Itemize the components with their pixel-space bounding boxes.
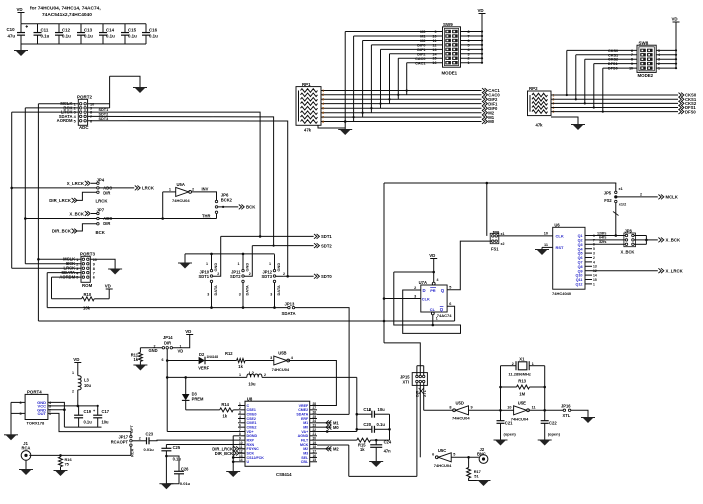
svg-text:U5E: U5E — [518, 400, 526, 405]
wire XTI bottom rail — [349, 475, 417, 477]
svg-text:MODE1: MODE1 — [442, 70, 458, 75]
svg-text:ROM: ROM — [82, 283, 93, 288]
svg-text:VD: VD — [73, 357, 79, 362]
wire JP14 pin1 to VD — [173, 335, 190, 348]
svg-text:FS2: FS2 — [604, 198, 612, 203]
svg-text:1: 1 — [239, 373, 241, 377]
svg-text:BCK: BCK — [246, 205, 256, 210]
svg-text:ADC: ADC — [79, 125, 89, 130]
svg-text:SDT3: SDT3 — [99, 117, 109, 121]
svg-text:11: 11 — [544, 243, 548, 247]
svg-text:Q7: Q7 — [578, 261, 583, 265]
wire JP15 top stubs — [416, 366, 418, 376]
svg-text:2: 2 — [264, 373, 266, 377]
wire PORT2 pin10/9 to ground — [88, 103, 110, 105]
svg-text:C19: C19 — [84, 409, 92, 414]
svg-text:U5C: U5C — [438, 448, 446, 453]
svg-text:11: 11 — [532, 406, 536, 410]
wire U8 U pin to ground — [233, 461, 238, 463]
svg-text:0.1u: 0.1u — [377, 422, 386, 427]
wire to JP16 — [545, 409, 564, 411]
svg-text:11.2896MHz: 11.2896MHz — [508, 371, 530, 376]
svg-text:Q10: Q10 — [576, 274, 583, 278]
svg-text:GND: GND — [276, 263, 281, 272]
svg-text:74HC4040: 74HC4040 — [552, 291, 572, 296]
ground C22 — [539, 440, 550, 446]
svg-text:C20: C20 — [363, 422, 371, 427]
svg-text:CKS1: CKS1 — [608, 53, 618, 57]
svg-text:C23: C23 — [146, 432, 154, 437]
svg-text:JP6: JP6 — [221, 192, 229, 197]
wires SW9 right pins to VD — [461, 31, 483, 33]
svg-text:D: D — [423, 288, 426, 293]
capacitor C21 open — [500, 418, 502, 421]
diode D3 PREM — [185, 377, 187, 394]
jumper JP11 SDT2 — [242, 254, 244, 270]
svg-text:5: 5 — [76, 276, 78, 280]
svg-text:PR: PR — [430, 288, 436, 293]
svg-text:JP5: JP5 — [604, 191, 612, 196]
svg-text:M0: M0 — [333, 425, 339, 430]
wire D2 row — [167, 360, 198, 362]
capacitor C20 0.1u — [357, 428, 372, 430]
wire C18/C20 right rail — [389, 414, 391, 440]
wire R12 to U5B — [245, 360, 274, 362]
svg-text:47u: 47u — [8, 34, 16, 39]
wire D3 to R14 — [186, 409, 220, 411]
wire VD PR CL loop to D — [394, 271, 434, 273]
svg-text:1: 1 — [206, 262, 208, 266]
svg-text:L2: L2 — [249, 371, 255, 376]
svg-text:10u: 10u — [84, 383, 92, 388]
jumper JP10 SDT1 — [211, 254, 213, 270]
svg-text:JP14: JP14 — [163, 335, 173, 340]
net label X_LRCK out — [658, 268, 663, 273]
resistor R17 51 — [468, 457, 470, 467]
svg-text:Q11: Q11 — [576, 278, 583, 282]
wire PORT3 BCK — [25, 263, 81, 265]
svg-text:1k: 1k — [238, 364, 243, 369]
capacitor C18 10u — [357, 413, 372, 415]
wire JP17 mid to C23 — [132, 440, 146, 442]
wire X_BCK out — [646, 239, 657, 241]
wire U8 VD+ feed — [167, 430, 238, 432]
svg-text:7: 7 — [93, 271, 95, 275]
svg-text:2: 2 — [640, 193, 642, 197]
wire LRCK long row — [12, 187, 97, 189]
svg-text:3: 3 — [593, 252, 595, 256]
svg-text:1k: 1k — [223, 414, 228, 419]
svg-text:R10: R10 — [84, 292, 92, 297]
svg-text:OUT: OUT — [38, 411, 47, 416]
inverter U5D 74HCU04 — [456, 406, 469, 415]
wire U5A input — [162, 192, 164, 219]
wire PORT3 pin10 to ground — [90, 259, 115, 269]
svg-text:74HCU04: 74HCU04 — [172, 198, 190, 203]
svg-text:JP13: JP13 — [285, 301, 295, 306]
wire R15 to C24 — [371, 439, 390, 441]
capacitor C23 0.01u — [146, 437, 148, 444]
capacitor C25 0.1u — [165, 444, 167, 448]
svg-text:Q5: Q5 — [578, 252, 583, 256]
svg-text:DFS1: DFS1 — [608, 62, 618, 66]
wire net SDT0 row — [284, 275, 314, 277]
svg-text:x1: x1 — [619, 187, 623, 191]
svg-text:8: 8 — [93, 267, 95, 271]
wire J1 to JP17 RCA — [29, 446, 131, 455]
svg-text:0.1u: 0.1u — [128, 34, 137, 39]
svg-text:6: 6 — [322, 111, 324, 115]
ground PORT4 — [6, 435, 17, 441]
svg-text:8: 8 — [449, 406, 451, 410]
wire U7A CL stub — [432, 315, 434, 325]
svg-text:(open): (open) — [504, 431, 517, 436]
svg-text:2: 2 — [192, 188, 194, 192]
svg-text:C25: C25 — [173, 445, 181, 450]
capacitor C13 0.1u — [80, 24, 82, 33]
svg-text:VD: VD — [178, 349, 184, 354]
wire U5A out INV to JP6 — [192, 192, 217, 200]
svg-text:5: 5 — [19, 412, 21, 416]
svg-text:10: 10 — [544, 232, 548, 236]
wire PORT4 OUT to JP17 OPT — [48, 413, 131, 435]
RP2 rows to chevrons CKS0..DFS0 — [551, 94, 678, 96]
wire RP1 common — [318, 125, 345, 128]
svg-text:SW9: SW9 — [443, 22, 453, 27]
svg-text:DATA: DATA — [213, 285, 218, 295]
svg-text:9: 9 — [471, 406, 473, 410]
svg-text:1: 1 — [72, 371, 74, 375]
ground J1 — [21, 470, 32, 476]
svg-text:X_BCK: X_BCK — [69, 211, 84, 216]
svg-text:32fs: 32fs — [599, 240, 606, 244]
svg-text:JP16: JP16 — [561, 404, 571, 409]
wire JP5 x1 feed — [615, 183, 617, 191]
wire J1 to ground — [25, 460, 27, 469]
crystal X1 11.2896MHz — [501, 365, 517, 367]
svg-text:DFS0: DFS0 — [685, 109, 696, 114]
svg-text:47n: 47n — [384, 449, 392, 454]
resistor R13 1M — [501, 386, 517, 388]
svg-text:3: 3 — [207, 293, 209, 297]
wire DIR_LRCK — [76, 192, 97, 200]
ground PORT3 — [110, 269, 121, 275]
svg-text:1: 1 — [532, 362, 534, 366]
svg-text:10u: 10u — [248, 382, 256, 387]
svg-text:CLK: CLK — [422, 297, 430, 302]
svg-text:U5D: U5D — [456, 400, 464, 405]
svg-text:C26: C26 — [181, 466, 189, 471]
svg-text:1: 1 — [76, 258, 78, 262]
svg-text:10u: 10u — [102, 420, 110, 425]
svg-text:47k: 47k — [304, 128, 312, 133]
net label M2 U8 — [317, 448, 331, 450]
wire cap bottom rail PORT4 — [64, 426, 101, 428]
svg-text:SDT1: SDT1 — [199, 274, 210, 279]
wire PORT3 SDATA — [47, 272, 81, 274]
svg-text:2: 2 — [283, 272, 285, 276]
svg-text:LRCK: LRCK — [142, 186, 155, 191]
net label MCLK — [658, 195, 663, 200]
svg-text:9: 9 — [631, 62, 633, 66]
wire VD top rail — [21, 23, 146, 25]
svg-text:(open): (open) — [548, 431, 561, 436]
wire X_LRCK out — [592, 270, 658, 272]
wire L2 rail right — [262, 376, 357, 378]
svg-text:DIR_BCK: DIR_BCK — [52, 229, 72, 234]
net label LRCK — [135, 186, 140, 191]
ground RP2 — [573, 125, 584, 131]
wire VD to PR — [433, 259, 435, 283]
svg-text:SDT0: SDT0 — [321, 274, 332, 279]
wire GND rail JP10-12 — [185, 253, 275, 255]
svg-text:VD: VD — [105, 284, 111, 289]
svg-text:VD: VD — [478, 8, 484, 13]
wires SW8 right pins common — [656, 49, 676, 51]
net label SDT1 — [314, 234, 319, 239]
wire U8 RXN row — [166, 443, 238, 445]
wire PORT4 VCC rail — [48, 405, 98, 407]
svg-text:Q12: Q12 — [576, 283, 583, 287]
svg-text:U: U — [247, 460, 250, 464]
svg-text:14: 14 — [239, 458, 243, 462]
wire vertical MCLK — [37, 104, 39, 321]
svg-text:4: 4 — [322, 102, 324, 106]
svg-text:X_LRCK: X_LRCK — [666, 268, 684, 273]
svg-text:XTI: XTI — [403, 380, 409, 385]
svg-text:DIR: DIR — [103, 221, 110, 226]
svg-text:PORT4: PORT4 — [27, 389, 42, 394]
wire Qbar rail — [38, 320, 454, 322]
svg-text:4: 4 — [593, 260, 595, 264]
wire U6 RST to ground — [542, 246, 553, 248]
svg-text:PORT2: PORT2 — [77, 94, 93, 99]
svg-text:X_BCK: X_BCK — [621, 249, 635, 254]
wire U8 MCK to rail — [317, 444, 349, 446]
svg-text:LRCK: LRCK — [96, 199, 109, 204]
resistor R10 10k — [52, 298, 82, 300]
ground PORT2 — [135, 88, 146, 94]
svg-text:AORDM: AORDM — [57, 118, 73, 123]
svg-text:74HCU04: 74HCU04 — [272, 367, 290, 372]
svg-text:M1: M1 — [420, 35, 425, 39]
wire JP14 pin2 to R11 — [140, 347, 162, 349]
wire JP9 feed — [486, 183, 488, 236]
svg-text:1k: 1k — [133, 357, 138, 362]
wire D2 to R12 — [205, 360, 237, 362]
svg-text:TORX178: TORX178 — [27, 420, 45, 425]
svg-text:2: 2 — [414, 286, 416, 290]
svg-text:6: 6 — [631, 49, 633, 53]
jumper JP12 SDT3 — [274, 254, 276, 270]
svg-text:3: 3 — [76, 267, 78, 271]
wire U8 DGND — [233, 435, 238, 437]
svg-text:XTL: XTL — [563, 413, 571, 418]
svg-text:R12: R12 — [225, 351, 233, 356]
svg-text:1N4148: 1N4148 — [207, 355, 219, 359]
svg-text:C21: C21 — [505, 421, 513, 426]
svg-text:2: 2 — [139, 436, 141, 440]
svg-text:15: 15 — [593, 278, 597, 282]
resistor R15 1k — [357, 438, 371, 442]
svg-text:SDT3: SDT3 — [262, 274, 273, 279]
svg-text:C12: C12 — [62, 28, 71, 33]
capacitor C22 open — [544, 418, 546, 421]
svg-text:BCK: BCK — [96, 230, 106, 235]
resistor R14 1k — [220, 408, 234, 412]
wire PORT4 GND rows — [48, 402, 65, 427]
ground R11 — [135, 365, 146, 371]
svg-text:Q6: Q6 — [578, 256, 583, 260]
resistor R16 75 — [60, 455, 62, 457]
inverter U5C 74HCU04 — [438, 453, 451, 462]
svg-text:7: 7 — [631, 53, 633, 57]
svg-text:X_BCK: X_BCK — [666, 238, 681, 243]
wires SW9 signals nested drops — [345, 31, 442, 33]
svg-text:BCK2: BCK2 — [221, 198, 233, 203]
wire SDATA rail to U8 — [295, 308, 349, 415]
svg-text:JP7: JP7 — [97, 208, 105, 213]
svg-text:5: 5 — [322, 107, 324, 111]
inductor L2 10u — [247, 374, 262, 377]
inverter U5B 74HCU04 — [274, 356, 287, 365]
wire JP15 col2 to U5C — [419, 383, 421, 458]
wire PORT3 AORDM — [52, 276, 82, 278]
wire U7A Qbar — [447, 306, 455, 321]
wire vertical BCK — [24, 108, 26, 264]
svg-text:VD: VD — [185, 329, 191, 334]
svg-text:C15: C15 — [128, 28, 137, 33]
svg-text:C14: C14 — [106, 28, 115, 33]
ground U6 RST — [537, 250, 548, 256]
svg-text:DIR_LRCK: DIR_LRCK — [49, 198, 72, 203]
svg-text:1: 1 — [238, 262, 240, 266]
svg-text:C24: C24 — [384, 440, 392, 445]
wire PORT2 BCK — [25, 107, 78, 109]
svg-text:SW8: SW8 — [639, 40, 649, 45]
svg-text:C17: C17 — [102, 409, 110, 414]
svg-text:L3: L3 — [84, 377, 90, 382]
svg-text:C22: C22 — [549, 421, 557, 426]
wire PORT2 MCLK — [38, 103, 78, 105]
wire U5D input — [469, 409, 501, 411]
svg-text:M0: M0 — [420, 30, 425, 34]
svg-text:DIR: DIR — [103, 190, 110, 195]
svg-text:5: 5 — [449, 286, 451, 290]
capacitor C24 47n — [375, 440, 377, 445]
svg-text:SDT1: SDT1 — [321, 234, 332, 239]
svg-text:JP4: JP4 — [97, 177, 105, 182]
svg-text:1k: 1k — [360, 447, 365, 452]
ground JP10 rail — [180, 263, 191, 269]
wire X_BCK row — [25, 218, 216, 220]
wire PORT2 LRCK — [12, 111, 79, 113]
ground RP1/M0 — [344, 128, 346, 130]
svg-text:0.1u: 0.1u — [84, 420, 93, 425]
svg-text:Q1: Q1 — [578, 234, 583, 238]
svg-text:74HCU04: 74HCU04 — [511, 417, 529, 422]
wire MCLK out — [617, 196, 658, 198]
ground C21 — [495, 440, 506, 446]
svg-text:DIF0: DIF0 — [417, 44, 425, 48]
svg-text:3: 3 — [270, 356, 272, 360]
svg-text:Q9: Q9 — [578, 269, 583, 273]
capacitor C15 0.1u — [124, 24, 126, 33]
wire U8 CS12/FCK to ground — [233, 456, 238, 458]
svg-text:SDT2: SDT2 — [321, 243, 332, 248]
wire osc right vertical — [544, 366, 546, 418]
U6 output pin stubs — [585, 235, 592, 237]
resistor R11 1k — [138, 352, 142, 361]
svg-text:6: 6 — [93, 276, 95, 280]
wire JP8 right common — [634, 235, 646, 237]
svg-text:MCLK: MCLK — [666, 195, 679, 200]
ground decoupling — [20, 44, 22, 51]
svg-text:9: 9 — [93, 262, 95, 266]
svg-text:47k: 47k — [536, 122, 544, 127]
wire U8 SDATA pin branch — [317, 413, 349, 415]
svg-text:0.1u: 0.1u — [62, 34, 71, 39]
svg-text:SDT2: SDT2 — [99, 112, 109, 116]
svg-text:0.1u: 0.1u — [173, 456, 182, 461]
svg-text:2: 2 — [72, 390, 74, 394]
svg-text:DATA: DATA — [276, 285, 281, 295]
svg-text:1: 1 — [593, 282, 595, 286]
wire feed to JP15 — [384, 343, 420, 366]
svg-text:R14: R14 — [221, 402, 229, 407]
inductor L3 10u — [78, 376, 81, 390]
svg-text:2: 2 — [322, 93, 324, 97]
svg-text:6: 6 — [90, 119, 92, 123]
wire net SDT3 from PORT2 pin6 — [88, 121, 288, 277]
wire net SDT2 row — [252, 245, 313, 247]
svg-text:74AC541x2,74HC4040: 74AC541x2,74HC4040 — [42, 12, 92, 18]
wire C18/C20 left rail — [356, 377, 358, 431]
svg-text:13: 13 — [593, 265, 597, 269]
capacitor C11 0.1u — [37, 24, 39, 33]
svg-text:RCAOPT: RCAOPT — [111, 440, 129, 445]
svg-text:15: 15 — [312, 458, 316, 462]
capacitor C12 0.1u — [58, 24, 60, 33]
wire PORT3 MCLK — [38, 258, 81, 260]
svg-text:M2: M2 — [333, 446, 339, 451]
svg-text:DIF2: DIF2 — [417, 52, 425, 56]
svg-text:SDATA: SDATA — [282, 311, 296, 316]
svg-text:8: 8 — [322, 120, 324, 124]
svg-text:6: 6 — [432, 453, 434, 457]
net label M0 U8 — [317, 426, 331, 428]
svg-text:SDT2: SDT2 — [230, 274, 241, 279]
svg-text:2: 2 — [593, 256, 595, 260]
svg-text:CAC1: CAC1 — [415, 61, 425, 65]
svg-text:10: 10 — [629, 67, 633, 71]
wire net SDT1 row — [221, 235, 314, 237]
svg-text:Q8: Q8 — [578, 265, 583, 269]
svg-text:1M: 1M — [519, 392, 525, 397]
svg-text:5: 5 — [74, 119, 76, 123]
svg-text:2: 2 — [249, 272, 251, 276]
wire U6 Q3 to JP8 — [592, 243, 625, 245]
wire PORT3 LRCK — [12, 267, 81, 269]
ground U8 digital — [228, 472, 239, 478]
svg-text:FS1: FS1 — [491, 247, 499, 252]
wire osc left vertical — [500, 366, 502, 418]
svg-text:0.1u: 0.1u — [106, 34, 115, 39]
svg-text:SDT1: SDT1 — [99, 108, 109, 112]
net label BCK — [239, 205, 244, 210]
ground JP16 — [583, 418, 594, 424]
svg-text:+: + — [368, 409, 370, 413]
